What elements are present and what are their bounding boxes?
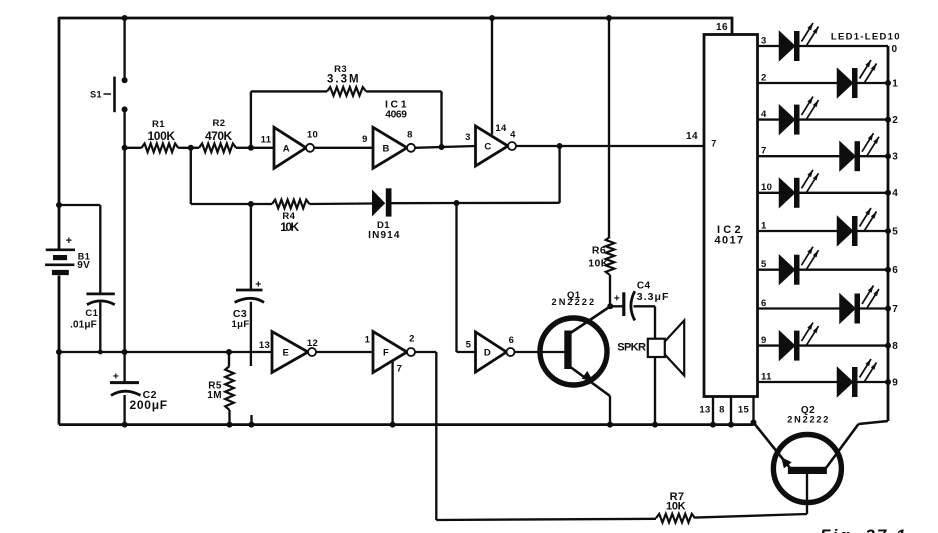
wire left rail upper (battery +) xyxy=(58,17,61,250)
capacitor C4 3.3uF xyxy=(622,292,625,316)
wire C2 top lead xyxy=(123,352,125,383)
LED8 (LED D8) xyxy=(840,295,855,323)
wire C3 ground stub xyxy=(250,415,252,425)
wire LED9 cathode to bus xyxy=(800,344,889,346)
wire S1 to R1 node xyxy=(123,109,125,147)
wire R3 right leg xyxy=(440,91,442,147)
svg-text:3: 3 xyxy=(465,132,471,143)
wire LED1 cathode to bus xyxy=(800,45,889,47)
resistor R1 100K xyxy=(125,147,142,149)
svg-text:1: 1 xyxy=(761,220,767,231)
wire left rail lower (battery -) xyxy=(58,276,61,425)
node top rail / IC1 pin14 junction xyxy=(489,15,495,21)
wire C2 bottom lead xyxy=(123,395,125,425)
svg-text:+: + xyxy=(255,279,262,291)
node LED bus row 4 xyxy=(885,190,891,196)
node IC2 pin13 / ground junction xyxy=(710,422,716,428)
inverter U1F (IC1 gate F) xyxy=(373,332,407,373)
wire C4 to speaker xyxy=(634,305,656,307)
svg-text:4: 4 xyxy=(510,130,516,141)
wire R7 to Q2 base xyxy=(695,514,807,518)
node D1 line / inverter D input junction xyxy=(454,200,460,206)
svg-text:1M: 1M xyxy=(207,390,222,401)
svg-text:R2: R2 xyxy=(213,118,226,129)
svg-text:9: 9 xyxy=(362,134,368,145)
resistor R3 3.3M xyxy=(327,87,366,96)
node IC2 pin8 / ground junction xyxy=(728,422,734,428)
wire F output line to R7 xyxy=(436,519,656,520)
svg-text:3.3M: 3.3M xyxy=(327,74,359,86)
svg-text:14: 14 xyxy=(686,131,698,142)
wire R3 feedback right xyxy=(366,90,442,92)
svg-text:2N2222: 2N2222 xyxy=(787,415,829,425)
wire IC1 pin14 power xyxy=(491,18,493,135)
svg-text:+: + xyxy=(614,293,621,305)
svg-text:B: B xyxy=(382,143,389,154)
wire C1 bottom lead xyxy=(99,302,101,352)
wire F output down to R7 xyxy=(435,352,437,520)
wire into inverter D input xyxy=(457,351,476,353)
svg-text:9V: 9V xyxy=(77,260,90,271)
node S1 / R1 / C2 branch junction xyxy=(122,145,128,151)
wire C output to IC2 pin 14 xyxy=(516,145,704,147)
switch S1 (pushbutton) xyxy=(122,77,128,83)
svg-text:14: 14 xyxy=(495,123,507,134)
node LED bus row 1 xyxy=(885,80,891,86)
speaker SPKR xyxy=(648,339,665,357)
svg-text:13: 13 xyxy=(699,405,710,416)
wire R1-R2 node down to R4 line xyxy=(190,148,192,204)
svg-text:100K: 100K xyxy=(148,129,176,143)
node battery + / C1 junction xyxy=(56,202,62,208)
wire C3 bottom lead xyxy=(250,302,252,366)
svg-text:C4: C4 xyxy=(637,281,651,292)
wire LED2 cathode to bus xyxy=(858,82,889,84)
svg-text:8: 8 xyxy=(892,341,898,352)
wire ground rail xyxy=(59,423,754,426)
wire D output to Q1 base xyxy=(515,351,566,353)
node LED bus row 3 xyxy=(885,153,891,159)
svg-text:11: 11 xyxy=(761,371,772,382)
svg-text:3: 3 xyxy=(761,35,767,46)
wire IC2 pin 7 to LED4 xyxy=(758,155,841,157)
node LED bus row 6 xyxy=(885,267,891,273)
svg-text:10K: 10K xyxy=(588,258,608,270)
wire LED8 cathode to bus xyxy=(860,307,888,309)
svg-text:16: 16 xyxy=(716,22,728,33)
node LED bus row 8 xyxy=(885,343,891,349)
svg-text:5: 5 xyxy=(466,340,472,351)
svg-text:2: 2 xyxy=(892,115,898,126)
svg-text:10K: 10K xyxy=(666,501,686,513)
node C3 stub / ground junction xyxy=(249,422,255,428)
capacitor C2 200uF xyxy=(110,381,139,384)
svg-text:0: 0 xyxy=(892,44,898,55)
svg-text:E: E xyxy=(283,348,289,359)
svg-text:S1: S1 xyxy=(90,90,102,100)
resistor R6 10K xyxy=(606,237,615,275)
node R5 top junction xyxy=(226,349,232,355)
inverter U1D (IC1 gate D) xyxy=(476,332,507,372)
wire D1 to D-input node xyxy=(392,202,457,205)
wire D1 node down to inverter D xyxy=(455,204,457,353)
svg-text:9: 9 xyxy=(761,335,767,346)
svg-text:10K: 10K xyxy=(280,220,299,234)
svg-text:4017: 4017 xyxy=(715,235,744,247)
svg-text:8: 8 xyxy=(407,130,413,141)
wire E output to F input xyxy=(316,351,373,353)
node IC1 pin7 / ground junction xyxy=(390,422,396,428)
svg-text:7: 7 xyxy=(761,146,767,157)
battery B1 9V xyxy=(46,249,75,252)
wire IC2 pin 5 to LED7 xyxy=(758,269,780,271)
node speaker / ground junction xyxy=(652,422,658,428)
node B output / R3 junction xyxy=(439,144,445,150)
wire LED10 cathode to bus xyxy=(858,381,889,383)
wire A output to B input xyxy=(314,147,373,149)
svg-text:12: 12 xyxy=(307,338,318,349)
wire +V top rail xyxy=(59,17,732,20)
capacitor C1 .01uF xyxy=(86,292,114,295)
node Q2 emitter / ground junction xyxy=(751,420,757,426)
svg-text:3: 3 xyxy=(892,152,898,163)
wire LED3 cathode to bus xyxy=(800,118,889,120)
transistor Q1 2N2222 xyxy=(540,318,607,385)
svg-text:6: 6 xyxy=(761,298,767,309)
wire IC2 pin 6 to LED8 xyxy=(758,307,841,309)
wire LED6 cathode to bus xyxy=(858,230,889,232)
svg-text:200μF: 200μF xyxy=(130,398,168,412)
svg-text:3.3μF: 3.3μF xyxy=(637,291,669,303)
svg-text:11: 11 xyxy=(261,135,272,146)
wire LED4 cathode to bus xyxy=(860,155,888,157)
wire D1 node to C-output leg xyxy=(457,202,560,205)
LED10 (LED D10) xyxy=(838,368,853,396)
wire C1 top lead xyxy=(99,205,101,294)
node C2 / ground junction xyxy=(122,422,128,428)
node LED bus row 7 xyxy=(885,306,891,312)
wire Q1 collector to C4 xyxy=(610,305,622,307)
svg-text:10: 10 xyxy=(761,182,772,193)
svg-text:2: 2 xyxy=(761,72,767,83)
wire IC2 pin 2 to LED2 xyxy=(758,82,838,84)
wire R1 node down to C2 xyxy=(123,148,125,352)
wire LED cathode bus xyxy=(887,46,890,421)
wire IC2 pin 1 to LED6 xyxy=(758,230,838,232)
inverter U1E (IC1 gate E) xyxy=(272,332,308,373)
wire +V down to R6 xyxy=(608,18,610,237)
svg-text:7: 7 xyxy=(892,304,898,315)
svg-text:6: 6 xyxy=(892,265,898,276)
svg-text:C: C xyxy=(484,142,491,153)
svg-text:13: 13 xyxy=(259,340,270,351)
wire C3 top lead xyxy=(250,204,252,291)
LED4 (LED D4) xyxy=(840,142,855,170)
node R5 / ground junction xyxy=(227,422,233,428)
svg-text:F: F xyxy=(383,348,389,359)
resistor R4 10K xyxy=(191,203,272,205)
wire IC2 pin 15 stub xyxy=(752,397,754,425)
svg-text:15: 15 xyxy=(738,405,750,416)
node LED bus row 9 xyxy=(885,379,891,385)
wire LED7 cathode to bus xyxy=(800,269,889,271)
svg-text:1: 1 xyxy=(892,78,898,89)
svg-text:A: A xyxy=(283,143,290,154)
node R1 / R2 / R4 junction xyxy=(188,145,194,151)
svg-text:470K: 470K xyxy=(205,129,233,143)
wire IC2 pin 4 to LED3 xyxy=(758,118,780,120)
wire C output down to D1 line xyxy=(558,146,560,203)
inverter U1C (IC1 gate C) xyxy=(476,126,509,166)
LED7 (LED D7) xyxy=(780,256,795,284)
node LED bus row 2 xyxy=(885,117,891,123)
inverter U1B (IC1 gate B) xyxy=(373,127,407,168)
wire speaker to ground xyxy=(654,357,656,425)
node top rail / S1 junction xyxy=(122,15,128,21)
node Q1 emitter / ground junction xyxy=(607,422,613,428)
LED5 (LED D5) xyxy=(780,179,795,207)
wire IC2 pin 9 to LED9 xyxy=(758,344,780,346)
LED2 (LED D2) xyxy=(838,69,853,97)
wire IC2 pin 11 to LED10 xyxy=(758,381,838,383)
node C output junction xyxy=(557,143,563,149)
svg-text:2: 2 xyxy=(409,334,415,345)
IC U2 (IC2 4017) outline xyxy=(704,35,758,397)
svg-text:10: 10 xyxy=(307,130,318,141)
svg-text:7: 7 xyxy=(711,139,716,149)
LED6 (LED D6) xyxy=(838,217,853,245)
svg-text:.01μF: .01μF xyxy=(70,320,97,331)
wire R4 to diode D1 xyxy=(309,202,372,205)
node R4 / C3 junction xyxy=(248,201,254,207)
node LED bus row 5 xyxy=(885,228,891,234)
svg-text:Fig. 37-1: Fig. 37-1 xyxy=(820,526,906,533)
svg-text:D: D xyxy=(484,348,491,359)
transistor Q2 2N2222 xyxy=(773,435,841,503)
wire R2 node to inverter A input xyxy=(251,147,274,149)
svg-text:6: 6 xyxy=(509,335,515,346)
svg-text:1μF: 1μF xyxy=(231,319,249,330)
wire battery+ to C1 top xyxy=(59,204,100,206)
wire LED5 cathode to bus xyxy=(800,192,889,194)
svg-text:4069: 4069 xyxy=(385,110,407,121)
capacitor C3 1uF xyxy=(236,289,263,292)
svg-text:+: + xyxy=(66,235,73,247)
svg-text:R6: R6 xyxy=(592,245,606,257)
wire IC2 pin 8 stub xyxy=(730,397,732,425)
svg-text:LED1-LED10: LED1-LED10 xyxy=(831,32,900,43)
LED9 (LED D9) xyxy=(780,332,795,360)
svg-text:4: 4 xyxy=(761,109,767,120)
svg-text:5: 5 xyxy=(892,226,898,237)
node R2 / R3 / IC1-A input junction xyxy=(248,145,254,151)
wire R3 feedback left xyxy=(251,90,327,92)
wire IC1 pin7 ground stub xyxy=(391,361,393,425)
node C2 top junction xyxy=(122,349,128,355)
svg-text:SPKR: SPKR xyxy=(617,342,646,354)
svg-text:7: 7 xyxy=(397,364,403,375)
wire R3 left leg xyxy=(250,91,252,147)
svg-text:+: + xyxy=(113,371,120,383)
node top rail / R6 junction xyxy=(606,15,612,21)
svg-text:5: 5 xyxy=(761,259,767,270)
svg-text:IN914: IN914 xyxy=(368,230,400,241)
svg-text:4: 4 xyxy=(892,188,898,199)
node C1 bottom junction xyxy=(98,350,103,355)
wire IC2 pin 10 to LED5 xyxy=(758,192,780,194)
op-amp, inverter U1A (IC1 gate A) xyxy=(274,127,306,168)
LED1 (LED D1) xyxy=(780,32,795,60)
node battery- / E-line junction xyxy=(56,349,62,355)
LED3 (LED D3) xyxy=(780,106,795,134)
wire IC2 pin 13 stub xyxy=(712,397,714,425)
wire F output right xyxy=(415,351,436,353)
svg-text:1: 1 xyxy=(365,335,371,346)
node Q1 collector junction xyxy=(607,303,613,309)
resistor R5 1M xyxy=(228,352,230,366)
resistor R7 10K xyxy=(656,514,695,523)
wire battery- to inverter E input xyxy=(59,351,272,353)
wire +V to switch S1 xyxy=(123,18,125,80)
wire IC2 pin 3 to LED1 xyxy=(758,45,780,47)
svg-text:C1: C1 xyxy=(85,308,98,319)
svg-text:9: 9 xyxy=(892,377,898,388)
svg-text:8: 8 xyxy=(719,405,725,416)
wire IC2 pin 16 to +V rail xyxy=(731,17,734,35)
resistor R2 470K xyxy=(191,147,199,149)
wire B output to C input xyxy=(415,146,475,148)
diode D1 1N914 xyxy=(372,190,385,217)
